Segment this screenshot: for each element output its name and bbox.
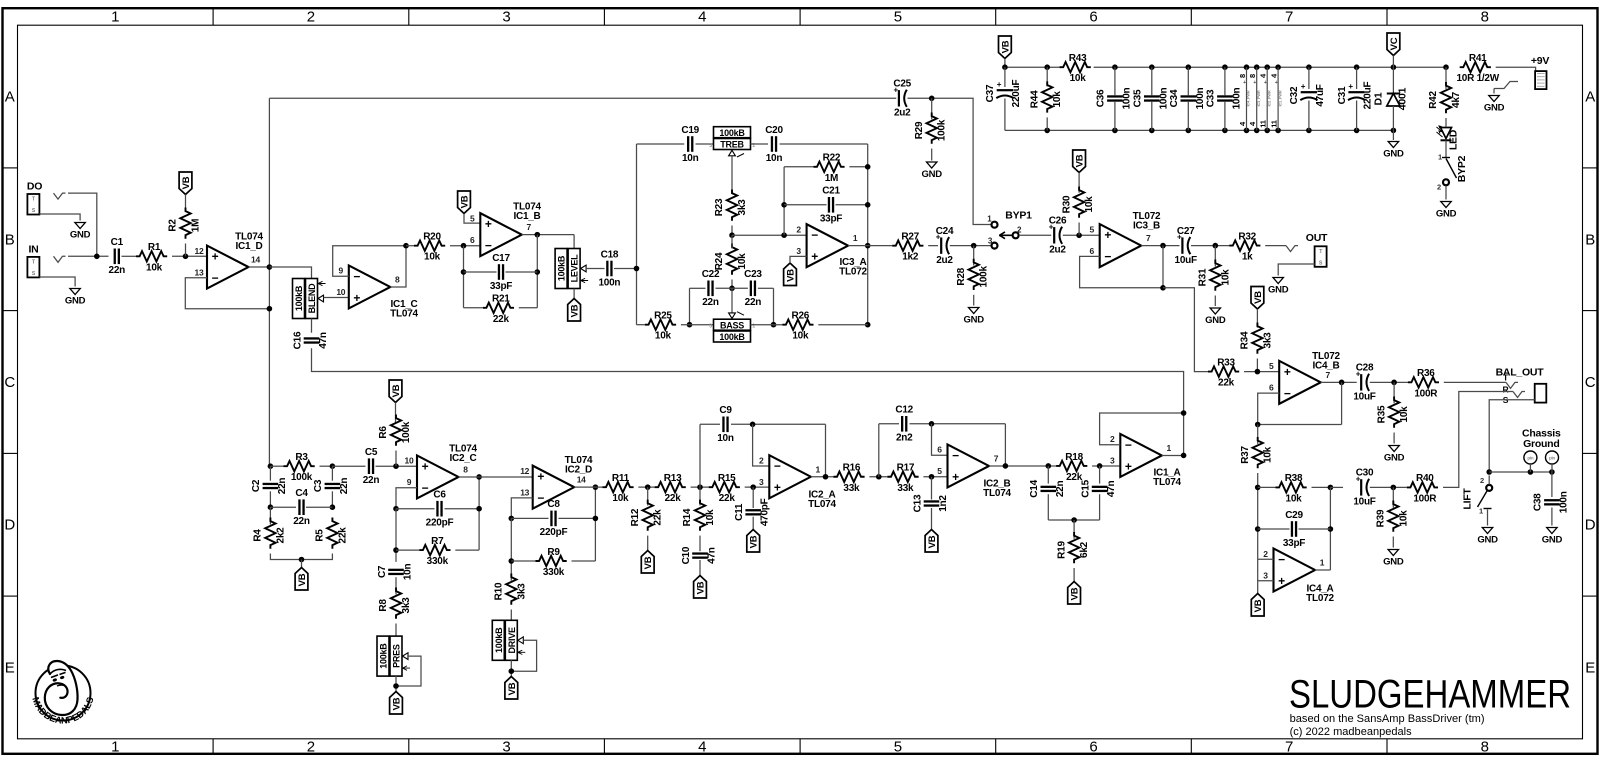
IC power stub IC1_PWR [1270, 67, 1283, 130]
svg-text:9: 9 [339, 266, 344, 276]
connector +9V battery [1531, 55, 1549, 89]
svg-text:100kB: 100kB [379, 643, 389, 669]
svg-text:22n: 22n [1055, 481, 1066, 498]
wire TREB to C20 [751, 143, 769, 145]
wire R14 to C10 [699, 536, 701, 552]
svg-text:R42: R42 [1428, 91, 1439, 109]
svg-text:R44: R44 [1029, 90, 1040, 108]
svg-text:−: − [1125, 438, 1132, 452]
junction [1186, 128, 1192, 134]
wire ground rail stub [1392, 130, 1394, 140]
wire rail to R19 [1073, 520, 1075, 539]
svg-text:IC1_PWR: IC1_PWR [1277, 90, 1282, 106]
svg-text:100n: 100n [599, 277, 621, 288]
svg-text:R23: R23 [714, 198, 725, 216]
junction [1255, 485, 1261, 491]
svg-text:E: E [5, 659, 15, 676]
svg-text:3: 3 [709, 324, 712, 330]
wire C25 to BYP1 pin 1 [908, 98, 992, 224]
svg-text:C25: C25 [893, 79, 911, 90]
junction [1255, 526, 1261, 532]
svg-text:VB: VB [1253, 599, 1264, 612]
junction [1486, 469, 1492, 475]
junction [1328, 526, 1334, 532]
svg-text:R32: R32 [1238, 231, 1256, 242]
wire R2 to input node [185, 244, 187, 257]
svg-text:10k: 10k [1070, 73, 1087, 84]
wire C12 rail to IC2_B output [1004, 424, 1006, 466]
wire VC tag to rail [1392, 56, 1394, 68]
ground (battery) [1484, 96, 1505, 114]
svg-text:3k3: 3k3 [401, 597, 412, 614]
wire C35 to ground rail [1151, 102, 1153, 131]
svg-text:6: 6 [937, 445, 942, 455]
junction [1254, 64, 1260, 70]
capacitor C7 [377, 564, 414, 581]
IC power stub IC3_PWR [1248, 67, 1261, 130]
resistor R42 [1428, 82, 1462, 113]
svg-text:IC4_B: IC4_B [1312, 360, 1339, 371]
wire pin 9 node vertical [395, 509, 397, 562]
wire IC4_B output [1321, 381, 1357, 383]
svg-text:100kB: 100kB [719, 128, 745, 138]
svg-text:1: 1 [1167, 443, 1172, 453]
wire signal to R33 [1163, 288, 1208, 372]
svg-text:6: 6 [1269, 383, 1274, 393]
svg-text:C20: C20 [765, 125, 783, 136]
junction [1044, 128, 1050, 134]
svg-text:pin: pin [1527, 456, 1533, 461]
svg-text:6: 6 [470, 235, 475, 245]
svg-text:BLEND: BLEND [307, 283, 317, 313]
svg-text:+: + [1264, 80, 1267, 86]
junction [1222, 64, 1228, 70]
svg-text:10R 1/2W: 10R 1/2W [1456, 73, 1499, 84]
potentiometer DRIVE [492, 620, 525, 660]
wire chassis node to C38 [1551, 472, 1553, 497]
wire TREB wiper to R23 [731, 155, 733, 194]
wire rail to C31 [1356, 67, 1358, 89]
svg-text:R8: R8 [378, 599, 389, 612]
svg-text:TL072: TL072 [839, 267, 867, 278]
junction [1112, 64, 1118, 70]
junction [771, 322, 777, 328]
svg-text:C: C [1585, 374, 1596, 391]
resistor R12 [630, 500, 664, 531]
op-amp IC3_A [796, 224, 867, 277]
svg-text:100n: 100n [1195, 87, 1206, 109]
wire rail to C34 [1187, 67, 1189, 95]
svg-text:−: − [952, 448, 959, 462]
wire BYP1 pin 2 to C26 [1019, 234, 1051, 236]
junction [1244, 128, 1250, 134]
svg-text:220uF: 220uF [1011, 80, 1022, 108]
svg-text:R11: R11 [612, 473, 630, 484]
svg-text:470pF: 470pF [760, 498, 771, 526]
resistor R33 [1208, 357, 1239, 388]
wire R15 to IC2_A pin 3 [745, 486, 770, 488]
wire to IC2_A pin 2 [753, 424, 770, 466]
junction [509, 668, 515, 674]
svg-text:+: + [1104, 228, 1111, 242]
wire node to R35 [1393, 382, 1395, 403]
resistor R19 [1056, 532, 1090, 563]
junction [535, 232, 541, 238]
svg-text:C18: C18 [601, 249, 619, 260]
resistor R16 [833, 463, 864, 494]
svg-text:22n: 22n [109, 265, 126, 276]
svg-text:1: 1 [1438, 153, 1442, 162]
svg-text:R9: R9 [547, 547, 560, 558]
wire C34 to ground rail [1187, 102, 1189, 131]
resistor R11 [602, 473, 633, 504]
wire VC rail [1094, 66, 1446, 68]
connector BAL_OUT [1496, 366, 1547, 405]
wire chassis ground rail [1489, 471, 1552, 473]
svg-text:+: + [353, 291, 360, 305]
svg-text:10n: 10n [717, 433, 734, 444]
resistor R17 [887, 463, 918, 494]
svg-text:R13: R13 [664, 473, 682, 484]
junction [1046, 463, 1052, 469]
junction [1306, 64, 1312, 70]
svg-text:10k: 10k [655, 331, 672, 342]
wire IC1_D output [249, 266, 270, 268]
wire C24 to BYP1 pin 3 [950, 245, 991, 247]
svg-text:47n: 47n [318, 332, 329, 349]
wire IC1_B inverting node vertical [463, 246, 465, 308]
svg-text:R12: R12 [630, 508, 641, 526]
wire R1 to IC1_D pin 12 [172, 255, 207, 257]
potentiometer BASS [709, 312, 755, 342]
svg-text:R7: R7 [431, 536, 444, 547]
wire inverting input rail [732, 234, 807, 236]
wire chassis pin 1 stem [1529, 464, 1531, 472]
wire R9 to output vertical [572, 560, 596, 562]
wire loop to C12 [879, 423, 899, 425]
junction [1160, 285, 1166, 291]
svg-text:R14: R14 [682, 508, 693, 526]
svg-text:7: 7 [1285, 9, 1293, 26]
wire C14 C15 bottom rail [1048, 519, 1099, 521]
op-amp IC3_B [1089, 211, 1161, 267]
wire rail to C35 [1151, 67, 1153, 95]
wire C33 to ground rail [1224, 102, 1226, 131]
resistor R21 [483, 294, 514, 325]
resistor R4 [253, 518, 287, 549]
svg-text:4: 4 [698, 9, 706, 26]
wire R20 to IC1_B pin 6 [450, 245, 480, 247]
op-amp IC2_D [520, 455, 593, 509]
junction [645, 484, 651, 490]
resistor R23 [714, 190, 748, 221]
junction [461, 243, 467, 249]
svg-text:C13: C13 [912, 494, 923, 512]
junction [461, 269, 467, 275]
svg-text:22n: 22n [745, 297, 762, 308]
svg-text:VB: VB [391, 384, 402, 397]
power tag VB (R30) [1073, 150, 1086, 173]
svg-text:100kB: 100kB [294, 285, 304, 311]
svg-text:SLUDGEHAMMER: SLUDGEHAMMER [1289, 673, 1571, 717]
resistor R27 [892, 231, 923, 262]
wire rail to R42 [1445, 67, 1447, 89]
potentiometer BLEND [293, 279, 326, 319]
wire node to R7 [396, 549, 419, 551]
power tag VB (LEVEL) [568, 299, 581, 322]
wire C5 to IC2_C pin 10 [376, 465, 418, 467]
svg-text:C9: C9 [719, 405, 732, 416]
svg-text:R30: R30 [1061, 195, 1072, 213]
svg-text:C11: C11 [734, 503, 745, 521]
svg-text:C17: C17 [492, 253, 510, 264]
wire C36 to ground rail [1114, 102, 1116, 131]
wire C14 to rail [1047, 494, 1049, 520]
wire node to C6 [396, 508, 435, 510]
wire LIFT to ground [1487, 510, 1489, 526]
svg-text:1: 1 [816, 464, 821, 474]
svg-text:VB: VB [786, 269, 797, 282]
junction [1002, 64, 1008, 70]
svg-text:10: 10 [405, 456, 414, 466]
resistor R41 [1456, 53, 1499, 84]
svg-text:R40: R40 [1416, 473, 1434, 484]
svg-text:22n: 22n [339, 478, 350, 495]
svg-text:100k: 100k [979, 265, 990, 287]
svg-text:2: 2 [1263, 549, 1268, 559]
svg-text:+: + [1275, 80, 1278, 86]
wire IC4_B pin 6 [1258, 393, 1280, 424]
svg-text:100n: 100n [1158, 87, 1169, 109]
svg-text:22k: 22k [337, 527, 348, 544]
wire R35 to ground [1393, 433, 1395, 444]
svg-text:TL074: TL074 [390, 309, 418, 320]
svg-text:3: 3 [709, 143, 712, 149]
svg-text:C28: C28 [1356, 363, 1374, 374]
svg-text:R16: R16 [843, 463, 861, 474]
svg-text:10k: 10k [1399, 406, 1410, 423]
power tag VB (R2 top) [179, 172, 192, 195]
wire PRES bottom to VB [395, 676, 397, 692]
wire C20 to output node [780, 143, 868, 145]
junction [1097, 463, 1103, 469]
svg-text:T: T [32, 197, 35, 203]
svg-text:C31: C31 [1337, 86, 1348, 104]
svg-text:33k: 33k [843, 483, 860, 494]
switch LIFT [1462, 476, 1493, 516]
junction [929, 96, 935, 102]
svg-text:R19: R19 [1056, 541, 1067, 559]
wire R28 to ground [973, 295, 975, 306]
wire IC1_C output [390, 246, 406, 287]
op-amp IC4_B [1269, 351, 1341, 404]
svg-text:R31: R31 [1198, 268, 1209, 286]
wire R11 to R13 [638, 486, 654, 488]
svg-text:+: + [1243, 80, 1246, 86]
wire IN sleeve to ground [39, 277, 75, 287]
capacitor C25 [893, 79, 911, 119]
wire VB to R30 [1078, 173, 1080, 193]
wire R4 R5 bottom rail [270, 554, 332, 560]
junction [865, 202, 871, 208]
svg-text:TL072: TL072 [1306, 593, 1334, 604]
wire R18 to IC1_A pin 3 [1092, 465, 1120, 467]
diode D1 [1373, 87, 1409, 110]
svg-text:C16: C16 [292, 331, 303, 349]
junction [865, 322, 871, 328]
svg-text:C4: C4 [295, 488, 308, 499]
wire R24 to cap rail [731, 280, 733, 289]
svg-text:R10: R10 [494, 582, 505, 600]
svg-text:GND: GND [1542, 535, 1563, 546]
svg-text:22k: 22k [1218, 378, 1235, 389]
svg-text:2n2: 2n2 [896, 433, 913, 444]
svg-text:T: T [32, 259, 35, 265]
svg-text:6: 6 [1089, 739, 1097, 756]
junction [687, 322, 693, 328]
svg-text:8: 8 [1238, 74, 1247, 78]
power tag VB (PRES) [390, 692, 403, 715]
wire C9 rail to IC2_A output [825, 424, 827, 476]
svg-text:−: − [212, 271, 219, 285]
wire node to C21 [784, 204, 826, 206]
junction [299, 557, 305, 563]
node input bias junction [183, 253, 189, 259]
wire rail to VB [301, 560, 303, 569]
svg-text:IN: IN [29, 243, 39, 255]
svg-text:D: D [1585, 517, 1596, 534]
wire node to IC4_A pin 2 [1258, 558, 1274, 560]
wire node to R31 [1214, 246, 1216, 267]
power tag VB (R12) [641, 551, 654, 574]
svg-text:220pF: 220pF [426, 518, 454, 529]
svg-text:3: 3 [796, 246, 801, 256]
svg-text:14: 14 [251, 255, 260, 265]
wire R7 to output vertical [455, 549, 479, 551]
svg-text:IC2_PWR: IC2_PWR [1266, 90, 1271, 106]
wire node to R28 [973, 246, 975, 266]
svg-text:VB: VB [749, 535, 760, 548]
junction [1149, 128, 1155, 134]
wire R21 to output node [519, 307, 538, 309]
junction [865, 164, 871, 170]
svg-text:VB: VB [460, 195, 471, 208]
resistor R10 [494, 574, 528, 605]
svg-text:10n: 10n [403, 564, 414, 581]
svg-text:R2: R2 [168, 219, 179, 232]
resistor R20 [414, 232, 445, 263]
wire IC2_C output vertical [478, 477, 480, 550]
wire tone stack input bus [636, 144, 638, 325]
wire rail to C37 [1004, 67, 1006, 87]
svg-text:C32: C32 [1289, 86, 1300, 104]
svg-text:6k2: 6k2 [1079, 541, 1090, 558]
svg-text:VB: VB [297, 573, 308, 586]
jack IN tip contact [54, 256, 66, 262]
svg-text:LEVEL: LEVEL [570, 254, 580, 283]
svg-text:PRES: PRES [392, 644, 402, 668]
svg-text:330k: 330k [427, 556, 449, 567]
svg-text:R29: R29 [914, 121, 925, 139]
svg-text:5: 5 [894, 9, 902, 26]
svg-text:R22: R22 [823, 153, 841, 164]
junction [476, 506, 482, 512]
svg-text:5: 5 [470, 213, 475, 223]
capacitor C31 [1337, 82, 1374, 110]
wire node to R9 [511, 560, 535, 562]
wire output feedback vertical [536, 235, 538, 308]
wire IC2_C pin 9 [396, 488, 417, 509]
wire node to C12 loop [878, 424, 880, 477]
svg-text:C8: C8 [547, 499, 560, 510]
wire node to C11 [752, 487, 754, 508]
svg-text:BASS: BASS [720, 320, 744, 330]
junction [1275, 64, 1281, 70]
wire C1 to R1 [122, 255, 137, 257]
junction [750, 422, 756, 428]
wire node to C8 [511, 517, 548, 519]
wire C27 to R32 [1191, 245, 1229, 247]
wire rail to C22 [690, 287, 706, 289]
resistor R25 [645, 311, 676, 342]
wire node to C2 [269, 466, 271, 481]
wire rail to D1 [1392, 67, 1394, 93]
svg-text:C3: C3 [313, 479, 324, 492]
wire rail right drop [773, 288, 775, 324]
wire DRIVE wiper loop [511, 640, 536, 671]
wire pin 13 node vertical [510, 518, 512, 580]
svg-text:2: 2 [796, 224, 801, 234]
svg-text:10k: 10k [1286, 493, 1303, 504]
svg-text:8: 8 [395, 274, 400, 284]
svg-text:B: B [1585, 231, 1595, 248]
svg-text:C: C [4, 374, 15, 391]
op-amp IC1_A [1110, 434, 1181, 488]
svg-text:R36: R36 [1417, 368, 1435, 379]
svg-text:C23: C23 [744, 269, 762, 280]
wire C19 to TREB [696, 143, 714, 145]
svg-text:2: 2 [307, 9, 315, 26]
ground (LIFT) [1477, 528, 1498, 546]
svg-text:VB: VB [181, 176, 192, 189]
op-amp IC4_A [1263, 549, 1334, 605]
svg-text:GND: GND [964, 315, 985, 326]
svg-text:LED: LED [1448, 129, 1460, 150]
wire node to R22/C21 [783, 167, 785, 235]
svg-text:D: D [4, 517, 15, 534]
svg-text:IC2_D: IC2_D [565, 465, 592, 476]
capacitor C8 [540, 499, 568, 538]
junction [1275, 128, 1281, 134]
power tag VB (IC3_A pin 3) [784, 263, 797, 286]
junction [1354, 128, 1360, 134]
resistor R22 [813, 153, 844, 184]
svg-text:IC2_C: IC2_C [449, 453, 476, 464]
svg-text:−: − [537, 491, 544, 505]
wire IC3_A output vertical bus [867, 144, 869, 325]
wire VB to R2 [185, 195, 187, 208]
wire C16 long bus to IC1_A [312, 348, 1184, 455]
svg-text:11: 11 [1270, 120, 1279, 128]
svg-text:VB: VB [1070, 587, 1081, 600]
svg-text:22k: 22k [665, 493, 682, 504]
wire BASS to R26 [751, 324, 783, 326]
junction [929, 421, 935, 427]
capacitor C24 [936, 226, 954, 266]
wire VB to R6 [395, 403, 397, 423]
svg-text:IC1_D: IC1_D [235, 241, 262, 252]
resistor R2 [168, 208, 202, 239]
